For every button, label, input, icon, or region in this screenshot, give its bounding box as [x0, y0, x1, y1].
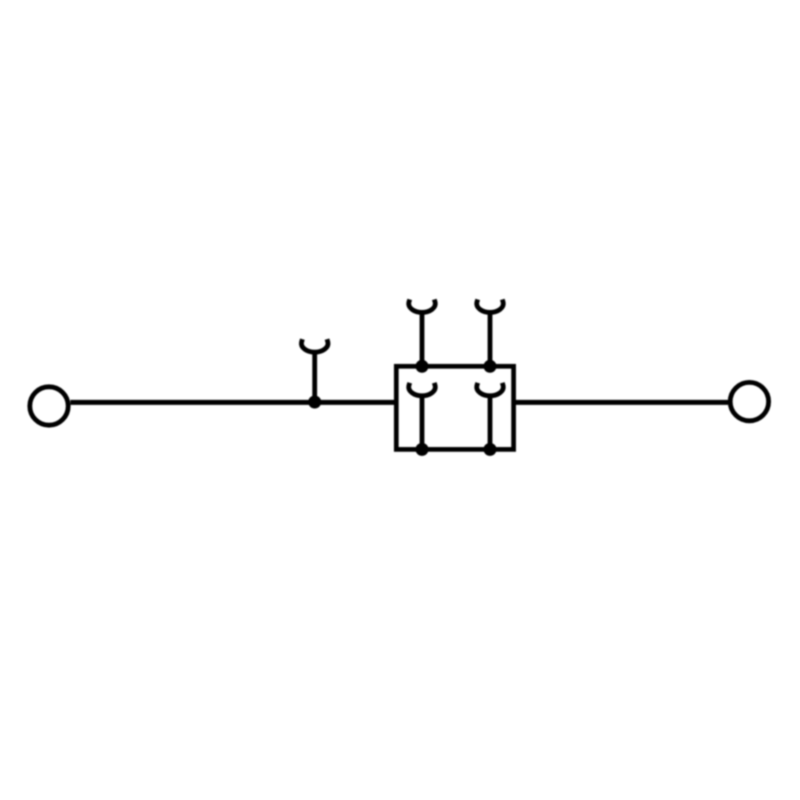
- junction dot box top left: [416, 360, 429, 373]
- wire left segment: [70, 400, 396, 405]
- terminal circle left: [30, 387, 68, 425]
- junction dot box top right: [484, 360, 497, 373]
- component box outline: [396, 366, 513, 449]
- terminal circle right: [730, 382, 768, 420]
- junction dot box bottom left: [416, 443, 429, 456]
- junction dot box bottom right: [484, 443, 497, 456]
- clamp fork top right: [477, 299, 504, 366]
- clamp fork on wire junction: [301, 339, 328, 402]
- wire right segment: [514, 400, 728, 405]
- clamp fork inside box right: [477, 383, 504, 450]
- junction dot on wire: [308, 396, 321, 409]
- clamp fork inside box left: [409, 383, 436, 450]
- clamp fork top left: [409, 299, 436, 366]
